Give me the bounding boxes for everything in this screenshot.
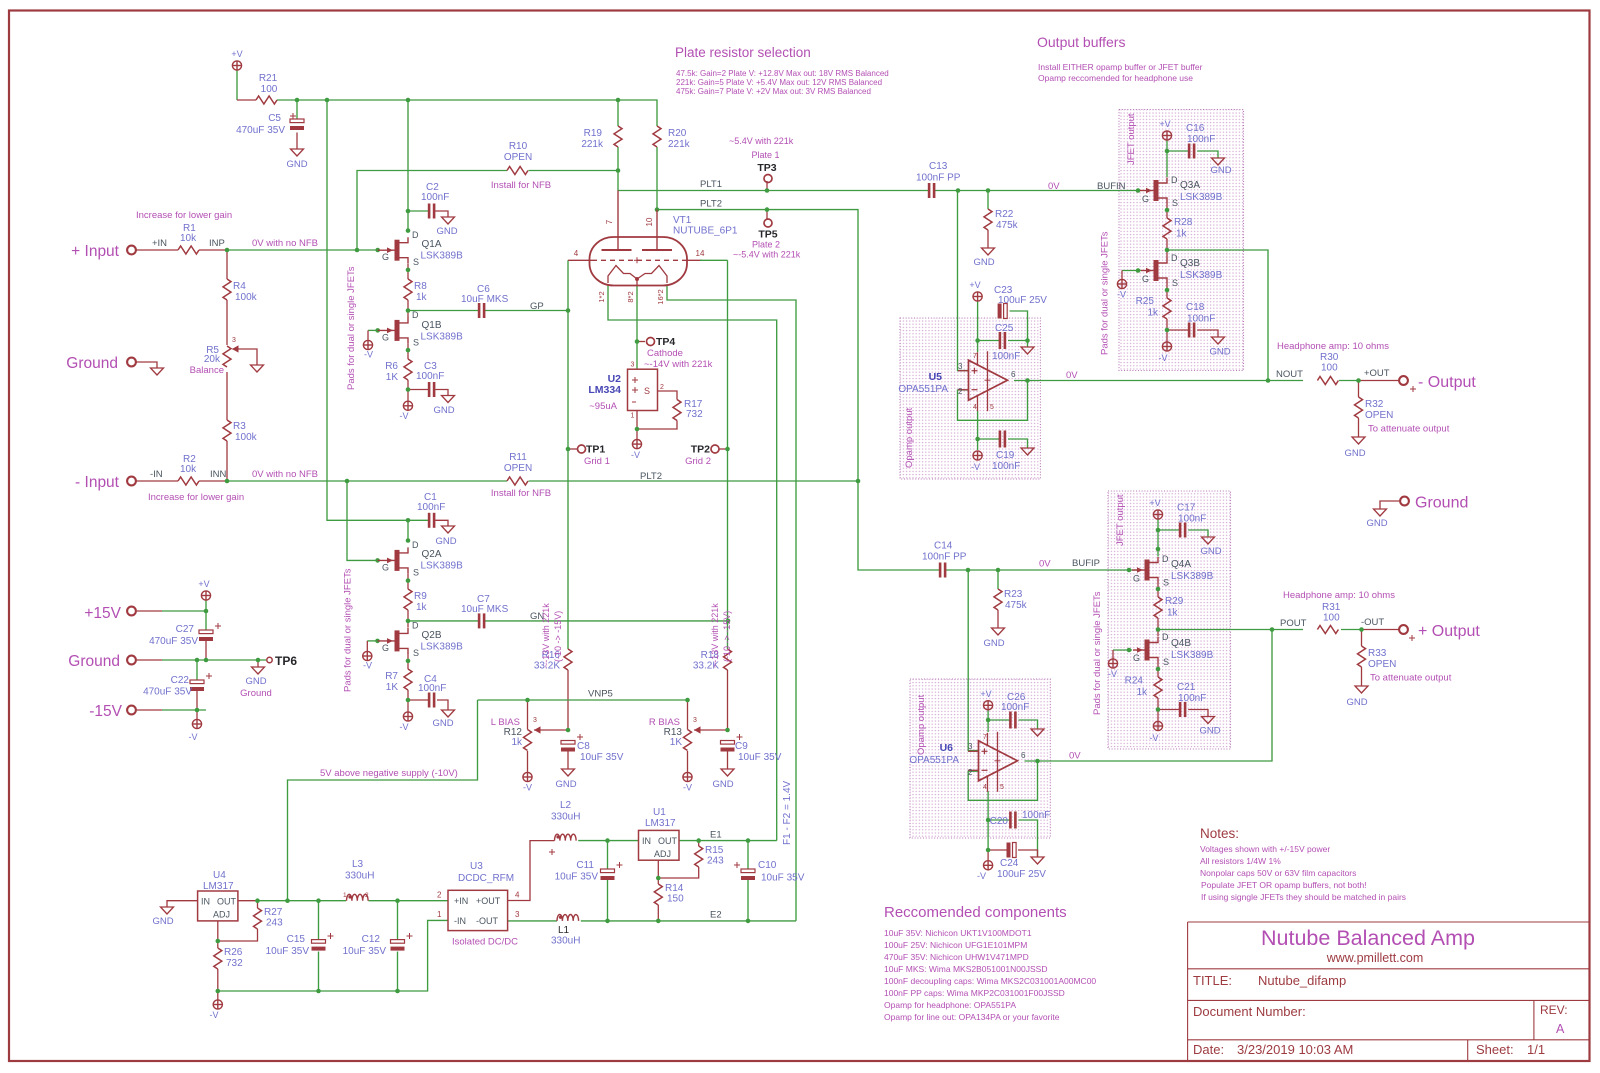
svg-text:-IN: -IN — [150, 469, 163, 480]
svg-text:E1: E1 — [710, 830, 722, 841]
resistor R6 — [404, 359, 412, 380]
svg-text:TITLE:: TITLE: — [1193, 973, 1232, 988]
wire TP4 stub — [637, 341, 645, 343]
svg-text:C25: C25 — [995, 323, 1014, 334]
resistor R2 — [178, 477, 199, 485]
capacitor C18 — [1188, 323, 1196, 338]
svg-text:1K: 1K — [670, 737, 683, 748]
inductor L2 — [555, 834, 577, 840]
wire Q4A source to R29 — [1157, 583, 1159, 597]
opamp U5 OPA551PA — [969, 360, 1008, 400]
svg-text:3: 3 — [533, 717, 537, 724]
svg-text:Date:: Date: — [1193, 1042, 1224, 1057]
supply -V at Q3B gate — [1117, 279, 1126, 288]
svg-text:Q1A: Q1A — [422, 239, 442, 250]
svg-text:-15V: -15V — [89, 703, 122, 720]
opamp U6 OPA551PA — [979, 741, 1018, 781]
wire U5 V- rail — [977, 411, 979, 450]
ground at U4 IN — [161, 907, 174, 914]
svg-text:-V: -V — [363, 661, 372, 671]
testpoint TP4 — [647, 338, 655, 346]
resistor R22 — [984, 209, 992, 230]
svg-text:+ Output: + Output — [1418, 623, 1480, 640]
svg-text:Populate JFET OR opamp buffers: Populate JFET OR opamp buffers, not both… — [1201, 880, 1367, 890]
svg-text:~-14V with 221k: ~-14V with 221k — [644, 359, 713, 370]
svg-text:100uF 25V: 100uF 25V — [998, 295, 1047, 306]
capacitor C7 — [478, 613, 486, 628]
svg-text:R26: R26 — [224, 947, 243, 958]
svg-text:U3: U3 — [470, 861, 483, 872]
svg-text:Nonpolar caps 50V or 63V film: Nonpolar caps 50V or 63V film capacitors — [1200, 868, 1356, 878]
supply -V below C22 — [192, 719, 201, 728]
svg-text:C24: C24 — [1000, 858, 1019, 869]
svg-text:LSK389B: LSK389B — [421, 642, 464, 653]
wire C9 to GND — [727, 749, 729, 770]
capacitor C11 — [601, 869, 615, 873]
transistor Q3A — [1154, 180, 1159, 201]
svg-text:JFET output: JFET output — [1126, 113, 1137, 165]
capacitor C25 — [999, 332, 1007, 349]
svg-text:3: 3 — [968, 742, 973, 751]
svg-text:REV:: REV: — [1540, 1003, 1568, 1017]
svg-text:OPEN: OPEN — [1368, 659, 1396, 670]
capacitor C21 — [1179, 702, 1187, 717]
wire U4 OUT to VNP5 node — [238, 900, 258, 902]
svg-text:TP3: TP3 — [757, 162, 776, 174]
svg-text:Install EITHER opamp buffer or: Install EITHER opamp buffer or JFET buff… — [1038, 62, 1203, 72]
wire R5 wiper to GND — [233, 349, 257, 365]
svg-text:100: 100 — [1321, 363, 1338, 374]
svg-text:D: D — [1171, 253, 1178, 263]
wire U5 feedback loop — [958, 381, 1028, 421]
svg-text:5: 5 — [990, 404, 994, 411]
svg-text:470uF 35V: 470uF 35V — [149, 636, 198, 647]
svg-text:D: D — [412, 310, 419, 320]
supply -V below R7 — [403, 712, 412, 721]
svg-text:Headphone amp: 10 ohms: Headphone amp: 10 ohms — [1277, 341, 1389, 352]
wire R7 to C4 junction to -V — [407, 690, 409, 712]
svg-text:100nF: 100nF — [1022, 810, 1050, 821]
svg-text:100nF: 100nF — [1187, 314, 1215, 325]
svg-text:8*2: 8*2 — [626, 291, 635, 302]
supply -V below R26 — [213, 1000, 222, 1009]
wire DCDC pin4 to L2 — [508, 841, 555, 901]
ground right of C19 — [1021, 448, 1034, 455]
svg-text:PLT2: PLT2 — [640, 471, 662, 482]
svg-text:3/23/2019 10:03 AM: 3/23/2019 10:03 AM — [1237, 1042, 1353, 1057]
resistor R24 — [1154, 677, 1162, 698]
svg-text:R10: R10 — [509, 141, 528, 152]
svg-text:(-10 -> -15V): (-10 -> -15V) — [553, 611, 563, 662]
regulator U4 LM317 — [198, 891, 238, 921]
svg-text:~-13V with 221k: ~-13V with 221k — [541, 603, 551, 668]
svg-text:Q2A: Q2A — [422, 549, 442, 560]
svg-text:GP: GP — [530, 301, 544, 312]
svg-text:-V: -V — [1159, 353, 1168, 363]
svg-text:1/1: 1/1 — [1527, 1042, 1545, 1057]
supply -V below R12 — [523, 772, 532, 781]
wire C15 chain — [318, 901, 320, 940]
svg-text:100k: 100k — [235, 432, 258, 443]
wire U6 +V supply — [987, 710, 989, 732]
wire TP6 GND stub — [257, 660, 259, 667]
supply -V at Q4B gate — [1108, 659, 1117, 668]
svg-text:Opamp for line out: OPA134PA o: Opamp for line out: OPA134PA or your fav… — [884, 1012, 1060, 1022]
wire C1 to GND — [435, 520, 448, 526]
svg-text:3: 3 — [515, 910, 520, 919]
svg-text:S: S — [1172, 198, 1178, 208]
tube grid dashed line — [592, 259, 683, 261]
svg-text:10uF MKS: 10uF MKS — [461, 604, 509, 615]
wire C20 connections — [988, 819, 1010, 821]
transistor Q1B — [395, 320, 400, 341]
capacitor C8 — [561, 741, 575, 745]
wire Q2A source to R9 — [407, 574, 409, 590]
connector pad -Output — [1399, 376, 1408, 385]
svg-text:INN: INN — [210, 469, 227, 480]
wire +15V input — [137, 610, 162, 612]
wire R25 to bottom node — [1166, 319, 1168, 342]
supply -V below R6 — [403, 401, 412, 410]
svg-text:Opamp output: Opamp output — [904, 407, 915, 468]
dotted region JFET output buffer 2 — [1108, 491, 1231, 749]
wire net POUT — [1158, 629, 1272, 631]
wire C17 to GND — [1158, 529, 1180, 531]
svg-text:R9: R9 — [414, 591, 427, 602]
capacitor C13 — [928, 183, 936, 198]
wire TP5 stub — [766, 210, 768, 220]
svg-text:R22: R22 — [995, 209, 1014, 220]
svg-text:NUTUBE_6P1: NUTUBE_6P1 — [673, 226, 738, 237]
wire U5 +V supply — [977, 301, 979, 352]
svg-text:1k: 1k — [1176, 229, 1188, 240]
svg-text:- Output: - Output — [1418, 374, 1476, 391]
wire +V to Q3A drain rail — [1166, 140, 1168, 177]
ground right of C16 — [1212, 158, 1225, 165]
wire net E1 — [578, 840, 638, 842]
current source U2 LM334 — [628, 369, 658, 410]
svg-text:LSK389B: LSK389B — [1180, 270, 1223, 281]
connector pad +Output — [1399, 625, 1408, 634]
svg-text:S: S — [413, 568, 419, 578]
resistor R1 — [178, 246, 199, 254]
wire C4 to GND — [408, 699, 429, 701]
svg-text:G: G — [382, 563, 389, 573]
svg-text:100nF PP caps: Wima MKP2C03100: 100nF PP caps: Wima MKP2C031001F00JSSD — [884, 988, 1065, 998]
wire TP2 stub — [719, 448, 728, 450]
svg-text:10uF 35V: 10uF 35V — [266, 946, 310, 957]
supply +V buffer1 — [1162, 131, 1171, 140]
svg-text:DCDC_RFM: DCDC_RFM — [458, 873, 514, 884]
svg-text:D: D — [412, 230, 419, 240]
svg-text:L1: L1 — [558, 925, 570, 936]
svg-text:GND: GND — [1346, 697, 1367, 708]
wire Ground input line to TP6 — [137, 659, 162, 661]
svg-text:Isolated DC/DC: Isolated DC/DC — [452, 937, 518, 948]
svg-text:100nF: 100nF — [418, 683, 446, 694]
ground below C3 — [442, 396, 455, 403]
svg-text:Opamp output: Opamp output — [916, 694, 927, 755]
svg-text:Grid 1: Grid 1 — [584, 456, 610, 467]
resistor R26 — [214, 948, 222, 969]
svg-text:47.5k: Gain=2 Plate V: +12: 47.5k: Gain=2 Plate V: +12.8V Max out: 1… — [676, 69, 889, 78]
svg-text:~-5.4V with 221k: ~-5.4V with 221k — [733, 250, 801, 260]
ground below TP6 — [252, 667, 265, 674]
wire +V rail top — [236, 70, 238, 100]
svg-text:100: 100 — [261, 84, 278, 95]
svg-text:GND: GND — [555, 779, 576, 790]
svg-text:Install for NFB: Install for NFB — [491, 488, 551, 499]
wire -Input to R2 — [136, 480, 178, 482]
connector pad -15V — [127, 706, 136, 715]
connector pad +Input — [127, 246, 136, 255]
ground right of C24 — [1031, 857, 1044, 864]
svg-text:2: 2 — [958, 387, 963, 396]
wire Q1B source to R6 — [407, 344, 409, 360]
wire U4 ADJ — [217, 921, 219, 948]
svg-text:Q4A: Q4A — [1171, 559, 1191, 570]
svg-text:LM317: LM317 — [203, 881, 234, 892]
dc-dc converter U3 DCDC_RFM — [448, 890, 508, 930]
svg-text:3: 3 — [958, 362, 963, 371]
potentiometer R5 balance — [223, 346, 231, 367]
svg-text:4: 4 — [515, 891, 520, 900]
potentiometer R13 R BIAS — [684, 730, 692, 751]
svg-text:Headphone amp: 10 ohms: Headphone amp: 10 ohms — [1283, 590, 1395, 601]
svg-text:7: 7 — [983, 734, 987, 741]
svg-text:0V with no NFB: 0V with no NFB — [252, 469, 318, 480]
ground right of C26 — [1031, 729, 1044, 736]
svg-text:100nF: 100nF — [992, 461, 1020, 472]
tube filaments — [608, 266, 637, 284]
svg-text:S: S — [1172, 278, 1178, 288]
svg-text:OUT: OUT — [658, 836, 678, 846]
svg-text:OUT: OUT — [217, 897, 237, 907]
svg-text:ADJ: ADJ — [213, 910, 230, 920]
svg-text:Grid 2: Grid 2 — [685, 456, 711, 467]
svg-text:6: 6 — [1021, 751, 1026, 760]
svg-text:C13: C13 — [929, 161, 948, 172]
svg-text:INP: INP — [209, 238, 225, 249]
capacitor C3 — [428, 382, 436, 397]
svg-text:0V: 0V — [1066, 370, 1078, 381]
connector pad +15V — [127, 607, 136, 616]
svg-text:G: G — [382, 333, 389, 343]
svg-text:-V: -V — [400, 722, 409, 732]
svg-text:2: 2 — [968, 768, 973, 777]
testpoint TP3 — [764, 175, 772, 183]
svg-text:475k: 475k — [996, 220, 1019, 231]
svg-text:3: 3 — [631, 362, 635, 369]
svg-text:+15V: +15V — [84, 605, 121, 622]
svg-text:www.pmillett.com: www.pmillett.com — [1326, 951, 1424, 965]
svg-text:C15: C15 — [287, 934, 306, 945]
svg-text:GND: GND — [1344, 448, 1365, 459]
svg-text:LSK389B: LSK389B — [421, 332, 464, 343]
wire net GP — [408, 310, 479, 312]
svg-text:0V with no NFB: 0V with no NFB — [252, 238, 318, 249]
svg-text:4: 4 — [983, 784, 987, 791]
svg-text:4: 4 — [574, 249, 579, 258]
svg-text:470uF 35V: 470uF 35V — [236, 125, 285, 136]
wire R19 bottom to PLT1 — [617, 147, 619, 191]
capacitor C6 — [478, 303, 486, 318]
svg-text:+V: +V — [969, 280, 980, 290]
wire R13 bottom to -V — [687, 751, 689, 772]
svg-text:TP2: TP2 — [691, 444, 710, 456]
wire C22 chain — [196, 660, 198, 680]
svg-text:R19: R19 — [584, 128, 603, 139]
svg-text:Output buffers: Output buffers — [1037, 34, 1125, 50]
svg-text:C12: C12 — [362, 934, 381, 945]
wire U2 pin2 to R17 top — [658, 391, 678, 400]
svg-text:Voltages shown with +/-15V pow: Voltages shown with +/-15V power — [1200, 844, 1330, 854]
wire output pads stubs — [1359, 380, 1400, 382]
svg-text:C5: C5 — [268, 113, 281, 124]
capacitor C10 — [741, 869, 755, 873]
svg-text:-V: -V — [631, 450, 640, 460]
svg-text:330uH: 330uH — [551, 812, 580, 823]
resistor R31 — [1317, 626, 1338, 634]
wire U1 ADJ — [657, 860, 659, 884]
connector pad Ground input — [127, 358, 136, 367]
svg-text:5: 5 — [1000, 784, 1004, 791]
svg-text:100nF: 100nF — [1187, 134, 1215, 145]
wire R6 to C3 junction to -V — [407, 380, 409, 401]
svg-text:GND: GND — [1209, 347, 1230, 358]
svg-text:U4: U4 — [213, 870, 226, 881]
capacitor C2 — [428, 204, 436, 219]
wire VNP5 riser to PSU — [288, 700, 478, 901]
resistor R9 — [404, 589, 412, 610]
wire C26 connections — [988, 719, 1010, 721]
wire C18 to GND — [1167, 329, 1189, 331]
svg-text:Document Number:: Document Number: — [1193, 1004, 1306, 1019]
ground right of C21 — [1202, 717, 1215, 724]
svg-text:0V: 0V — [1069, 751, 1081, 762]
svg-text:+IN: +IN — [152, 238, 167, 249]
svg-text:GND: GND — [436, 226, 457, 237]
svg-text:Q3A: Q3A — [1180, 180, 1200, 191]
ground below R5 wiper — [251, 365, 264, 372]
svg-text:100nF decoupling caps: Wima MK: 100nF decoupling caps: Wima MKS2C031001A… — [884, 976, 1096, 986]
capacitor C24 — [1007, 843, 1011, 858]
resistor R32 — [1355, 397, 1363, 418]
wire tube cathode to U2 — [636, 285, 638, 369]
wire +Input to R1 — [136, 249, 178, 251]
svg-text:221k: Gain=5 Plate V: +5.4: 221k: Gain=5 Plate V: +5.4V Max out: 12V… — [676, 78, 882, 87]
svg-text:1k: 1k — [1136, 687, 1148, 698]
supply +V buffer2 — [1153, 510, 1162, 519]
svg-text:3: 3 — [232, 337, 236, 344]
wire R8 to Q1B drain net GP junction — [407, 300, 409, 318]
capacitor C19 — [999, 431, 1007, 448]
dotted region Opamp output U6 — [910, 679, 1050, 838]
resistor R14 — [654, 884, 662, 905]
svg-text:LSK389B: LSK389B — [1180, 192, 1223, 203]
svg-text:-IN: -IN — [454, 916, 466, 926]
resistor R28 — [1163, 218, 1171, 239]
svg-text:GND: GND — [435, 536, 456, 547]
svg-text:-V: -V — [364, 350, 373, 360]
wire net E2 — [581, 920, 796, 922]
svg-text:U1: U1 — [653, 807, 666, 818]
svg-text:R24: R24 — [1125, 676, 1144, 687]
svg-text:OPEN: OPEN — [504, 463, 532, 474]
resistor R11 — [507, 477, 528, 485]
svg-text:GND: GND — [286, 159, 307, 170]
svg-text:R31: R31 — [1322, 602, 1341, 613]
wire +V to Q4A drain rail — [1157, 519, 1159, 557]
wire C19 connections — [978, 438, 1000, 440]
wire R14 bottom — [657, 905, 659, 921]
transistor Q3B — [1154, 260, 1159, 281]
connector pad Ground mid-right — [1400, 497, 1409, 506]
svg-text:D: D — [1171, 175, 1178, 185]
svg-text:PLT1: PLT1 — [700, 179, 722, 190]
svg-text:GND: GND — [973, 257, 994, 268]
capacitor C23 — [998, 304, 1002, 319]
svg-text:7: 7 — [605, 219, 614, 224]
svg-text:+V: +V — [980, 689, 991, 699]
capacitor C5 — [290, 119, 304, 123]
svg-text:-V: -V — [683, 783, 692, 793]
svg-text:S: S — [644, 386, 650, 396]
svg-text:6: 6 — [1011, 370, 1016, 379]
svg-text:C18: C18 — [1186, 302, 1205, 313]
svg-text:To attenuate output: To attenuate output — [1370, 673, 1452, 684]
svg-text:Q1B: Q1B — [422, 320, 442, 331]
wire tube filament F1 1*2 — [608, 285, 777, 841]
svg-text:NOUT: NOUT — [1276, 369, 1303, 380]
junction dots — [295, 98, 300, 103]
tube grid pin 4 wire — [568, 259, 592, 261]
svg-text:10uF 35V: 10uF 35V — [343, 946, 387, 957]
svg-text:R3: R3 — [233, 421, 246, 432]
svg-text:JFET output: JFET output — [1115, 494, 1126, 546]
wire C5 stubs — [296, 100, 298, 119]
svg-text:L2: L2 — [560, 800, 572, 811]
svg-text:If using signgle JFETs they sh: If using signgle JFETs they should be ma… — [1201, 892, 1406, 902]
wire net BUFIN opamp U5 + input riser — [958, 191, 969, 371]
svg-text:Opamp reccomended for headphon: Opamp reccomended for headphone use — [1038, 73, 1193, 83]
svg-text:GND: GND — [712, 779, 733, 790]
svg-text:R32: R32 — [1365, 399, 1384, 410]
svg-text:GND: GND — [1199, 726, 1220, 737]
ground symbol at ground input — [151, 368, 164, 375]
dotted region Opamp output U5 — [900, 318, 1040, 479]
supply -V bottom buffer2 — [1153, 721, 1162, 730]
svg-text:OPA551PA: OPA551PA — [909, 755, 959, 766]
wire net BUFIP U6 + input riser — [968, 570, 978, 751]
wire C24 connections — [988, 849, 1007, 851]
svg-text:C14: C14 — [934, 541, 953, 552]
resistor R18 — [724, 649, 732, 670]
wire R27 chain — [257, 901, 259, 908]
svg-text:GND: GND — [433, 405, 454, 416]
svg-text:R7: R7 — [385, 671, 398, 682]
svg-text:LM334: LM334 — [588, 384, 621, 396]
svg-text:C27: C27 — [176, 624, 195, 635]
svg-text:C19: C19 — [996, 450, 1015, 461]
wire C16 to GND inside buffer1 — [1167, 150, 1189, 152]
svg-text:7: 7 — [973, 353, 977, 360]
svg-text:Cathode: Cathode — [647, 348, 683, 359]
capacitor C26 — [1009, 712, 1017, 729]
wire Q3B gate -V — [1122, 270, 1141, 272]
svg-text:-V: -V — [1150, 733, 1159, 743]
svg-text:Ground: Ground — [66, 355, 118, 372]
